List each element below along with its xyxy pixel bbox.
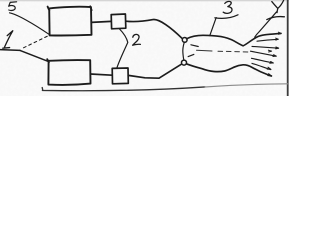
label 4	[267, 0, 285, 19]
spray stroke 4	[251, 51, 277, 56]
small box top (metering device 2)	[111, 14, 126, 29]
spray stroke 6	[252, 63, 271, 69]
label 2	[133, 34, 141, 45]
leader from 4 to bell top	[255, 12, 277, 37]
flow dash upper injector	[191, 45, 198, 47]
top scan border	[0, 0, 289, 2]
arrowhead bottom spray	[268, 74, 272, 76]
torch top outline into bell and top spray stroke	[187, 33, 282, 45]
leader from 3 to torch top	[210, 15, 238, 36]
wire top small box to torch inlet	[126, 20, 182, 39]
leader zigzag from 2 to both small boxes	[117, 29, 128, 68]
box bottom (powder feeder)	[47, 59, 90, 85]
axis dashes right part	[218, 50, 250, 53]
label 1	[3, 31, 13, 48]
small box bottom (metering device 2)	[112, 68, 128, 84]
wire bottom small box to torch inlet	[128, 64, 181, 78]
wire stub top box to small box	[91, 21, 111, 22]
arrowhead spray 2	[276, 38, 279, 40]
injector knot lower	[182, 60, 187, 65]
feed line left	[0, 49, 20, 52]
spray stroke 3	[252, 46, 279, 48]
injector knot upper	[182, 38, 187, 43]
torch bottom outline into bell and bottom spray stroke	[186, 64, 271, 76]
wire solid branch to bottom box	[20, 50, 48, 61]
arrowhead spray 5	[270, 62, 273, 64]
label 3	[223, 1, 232, 13]
flow dash lower injector	[188, 54, 194, 56]
dashed wall between injectors	[183, 43, 184, 60]
arrowhead spray 3	[276, 47, 279, 49]
baseline ground line	[42, 87, 205, 91]
wire dashed branch to top box	[24, 36, 48, 48]
nozzle axis dashed centerline	[197, 49, 213, 52]
arrowhead spray 4	[273, 55, 276, 57]
spray tick small b	[267, 67, 271, 69]
baseline faint right part	[205, 84, 289, 87]
label 5	[9, 2, 17, 11]
arrowhead top spray	[278, 32, 281, 34]
box top (powder feeder)	[48, 6, 92, 35]
spray stroke 2	[257, 39, 278, 41]
wire stub bottom box to small box	[90, 74, 112, 75]
spray tick small a	[268, 50, 271, 52]
leader line from 5 to top box corner	[10, 13, 49, 34]
right scan border	[287, 0, 289, 96]
spray stroke 5	[252, 58, 274, 63]
